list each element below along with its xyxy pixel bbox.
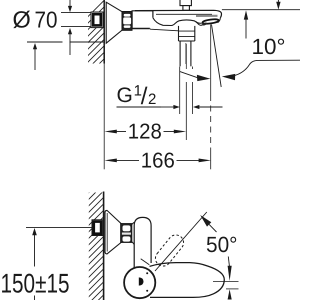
svg-text:Ø: Ø bbox=[13, 7, 31, 33]
body column (bottom view) bbox=[134, 217, 151, 268]
temperature indicator mark bbox=[139, 277, 144, 285]
top right dimension arrows bbox=[244, 0, 281, 39]
spout inner shading line bbox=[196, 15, 218, 17]
spout top extension line bbox=[222, 9, 300, 11]
lever raised position (dashed) bbox=[152, 232, 186, 269]
indicator dots bbox=[146, 272, 148, 274]
mixer body (top view) bbox=[132, 11, 153, 29]
dimension 128 bbox=[104, 119, 186, 143]
spray reference line (10 deg) bbox=[212, 25, 222, 88]
lever handle (closed position) bbox=[150, 263, 225, 298]
dimension G 1/2 bbox=[117, 83, 162, 111]
cartridge stub (cut off at top) bbox=[180, 0, 191, 10]
svg-text:50°: 50° bbox=[206, 232, 238, 257]
supply pipe lines bbox=[61, 12, 92, 14]
body bottom edge bbox=[132, 28, 150, 30]
dimension 150±15 bbox=[1, 228, 70, 300]
extension line escutcheon bottom bbox=[27, 41, 63, 43]
nut to column transition lines bbox=[132, 222, 134, 244]
svg-text:2: 2 bbox=[148, 91, 156, 108]
spout top outline bbox=[135, 10, 222, 17]
10 deg left leader bbox=[180, 71, 211, 81]
wall elbow fitting (top view) bbox=[91, 12, 103, 28]
svg-text:/: / bbox=[141, 83, 148, 110]
wall extension line bbox=[103, 45, 105, 169]
spout underside profile bbox=[153, 18, 203, 26]
svg-text:150±15: 150±15 bbox=[1, 269, 70, 299]
connection nut (bottom view) bbox=[121, 224, 132, 243]
extension line G1/2 right bbox=[192, 67, 194, 70]
lever axis line (50 deg) bbox=[155, 212, 207, 271]
10 deg right leader bbox=[222, 60, 300, 80]
fillet line bbox=[141, 259, 150, 265]
50 deg leader arrow bbox=[200, 215, 216, 232]
dimension 166 bbox=[104, 148, 211, 172]
svg-text:70: 70 bbox=[35, 7, 58, 33]
aerator extension line bbox=[210, 25, 212, 96]
center extension line 128 bbox=[185, 44, 187, 69]
escutcheon cone (top view) bbox=[106, 2, 122, 43]
spout inner line bbox=[156, 13, 212, 15]
svg-text:128: 128 bbox=[128, 119, 162, 143]
spout tip underside bbox=[196, 18, 220, 24]
wall hatching (top view) bbox=[72, 0, 110, 124]
right small dimension arrows bbox=[228, 257, 232, 300]
connection nut (top view) bbox=[122, 11, 132, 30]
escutcheon flange line bbox=[106, 213, 108, 252]
dimension Ø70 arrows bbox=[68, 0, 72, 55]
wall elbow fitting (bottom view) bbox=[92, 220, 103, 236]
svg-text:166: 166 bbox=[141, 148, 175, 172]
svg-text:G: G bbox=[117, 84, 133, 107]
right small dimension extension lines bbox=[213, 280, 239, 282]
shower outlet pipe bbox=[180, 41, 191, 66]
wall face line (bottom view) bbox=[103, 192, 105, 300]
wall hatching (bottom view) bbox=[72, 172, 110, 300]
up arrow below escutcheon line bbox=[33, 43, 37, 70]
shower outlet collar bbox=[179, 26, 195, 41]
wall face line bbox=[103, 0, 105, 64]
aerator bbox=[202, 18, 219, 26]
lever pivot cap bbox=[124, 267, 155, 298]
supply line / 150 extension bbox=[26, 226, 92, 228]
escutcheon cone (bottom view) bbox=[105, 210, 121, 254]
extension line G1/2 left bbox=[179, 67, 181, 115]
svg-text:10°: 10° bbox=[252, 34, 286, 59]
